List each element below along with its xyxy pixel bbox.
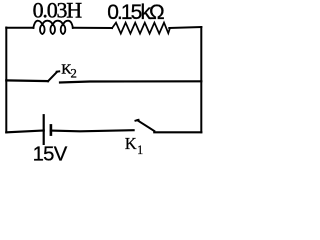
- svg-text:0.03H: 0.03H: [33, 0, 83, 23]
- svg-text:15V: 15V: [33, 143, 68, 165]
- svg-text:K: K: [125, 134, 137, 153]
- svg-text:1: 1: [137, 143, 143, 157]
- svg-text:0.15kΩ: 0.15kΩ: [107, 1, 164, 24]
- svg-text:2: 2: [71, 67, 77, 81]
